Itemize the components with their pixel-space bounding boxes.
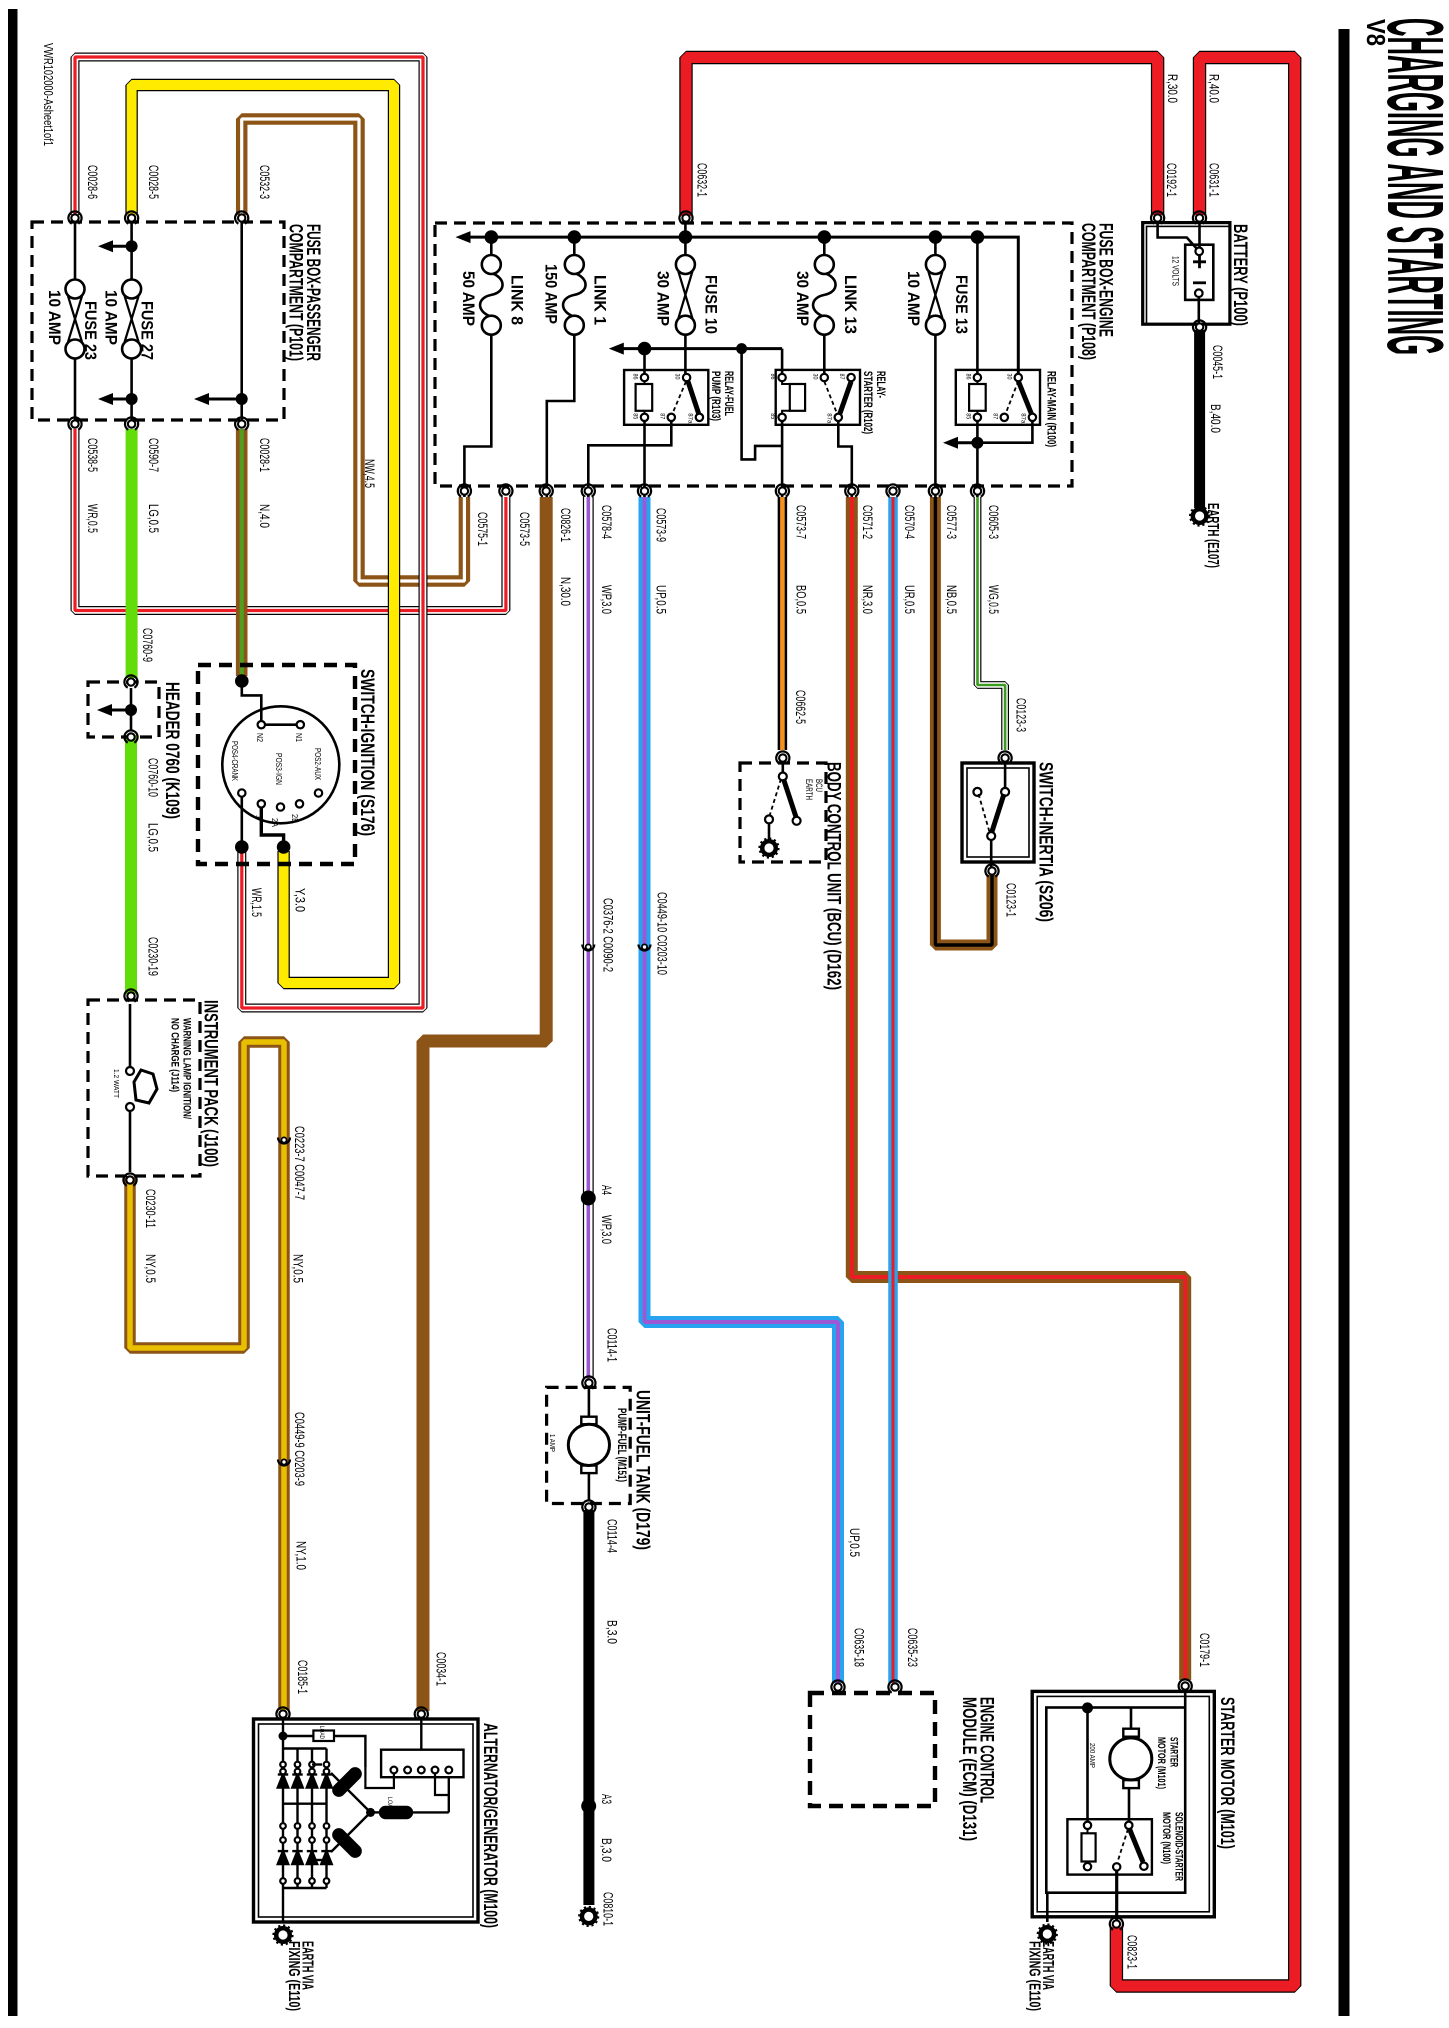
- junction A3 splice: [581, 1799, 596, 1814]
- svg-text:30: 30: [811, 374, 818, 380]
- svg-text:BODY CONTROL UNIT (BCU) (D162): BODY CONTROL UNIT (BCU) (D162): [823, 762, 844, 990]
- svg-text:NY,1.0: NY,1.0: [294, 1541, 309, 1570]
- svg-text:C0573-7: C0573-7: [793, 505, 808, 539]
- connector C0578-4: [579, 482, 597, 500]
- svg-text:10 AMP: 10 AMP: [904, 271, 922, 326]
- wire alt earth lead: [282, 1888, 284, 1922]
- wire R100 no out: [983, 422, 1032, 443]
- wire R102 blade alt: [824, 382, 837, 414]
- svg-text:87: 87: [991, 413, 998, 419]
- wire Y,3.0: [132, 85, 394, 983]
- svg-text:C0223-7 C0047-7: C0223-7 C0047-7: [292, 1126, 307, 1200]
- connector C0573-9: [635, 482, 653, 500]
- connector C0192-1: [1149, 209, 1167, 227]
- wire R103 85 out: [643, 422, 646, 498]
- svg-text:SOLENOID-STARTER: SOLENOID-STARTER: [1173, 1812, 1185, 1881]
- svg-text:C0376-2 C0090-2: C0376-2 C0090-2: [601, 898, 616, 972]
- wire N,4.0: [236, 429, 248, 676]
- svg-text:30 AMP: 30 AMP: [653, 271, 671, 326]
- wire R,40.0: [1116, 58, 1294, 1987]
- svg-text:BO,0.5: BO,0.5: [793, 585, 808, 614]
- relay R102 coil: [790, 384, 805, 411]
- relay R100 coil: [969, 384, 986, 411]
- connector C0538-5: [66, 415, 84, 433]
- svg-text:FUSE BOX-ENGINE: FUSE BOX-ENGINE: [1095, 223, 1116, 337]
- wire R103 86 line: [643, 349, 646, 374]
- connector C0571-2: [843, 482, 861, 500]
- svg-text:87: 87: [658, 413, 665, 419]
- svg-text:NY,0.5: NY,0.5: [143, 1254, 158, 1283]
- svg-text:86: 86: [964, 374, 971, 380]
- wire WG,0.5: [978, 497, 1006, 750]
- earth symbol alternator earth: [273, 1925, 292, 1944]
- connector C0028-5: [123, 209, 141, 227]
- svg-text:A4: A4: [599, 1185, 614, 1195]
- svg-text:C0571-2: C0571-2: [860, 505, 875, 539]
- svg-text:C0573-5: C0573-5: [517, 512, 532, 546]
- svg-text:FUSE BOX-PASSENGER: FUSE BOX-PASSENGER: [302, 224, 323, 361]
- svg-text:C0635-23: C0635-23: [905, 1628, 920, 1667]
- wire alt feed line: [282, 1719, 284, 1749]
- alternator regulator box: [381, 1750, 463, 1778]
- alternator stator windings: [312, 1765, 449, 1861]
- connector C0532-3: [233, 209, 251, 227]
- starter inner frame: [1046, 1708, 1185, 1893]
- connector C0605-3: [968, 482, 986, 500]
- svg-text:PUMP (R103): PUMP (R103): [709, 371, 721, 421]
- svg-text:BCU: BCU: [813, 779, 824, 792]
- wire link8 stub: [490, 237, 493, 255]
- wire UP,0.5: [645, 497, 839, 1683]
- svg-text:87: 87: [838, 374, 845, 380]
- connector C0230-19: [122, 987, 140, 1005]
- switch-ignition (S176): [198, 665, 355, 864]
- wire R102 coil bot stub: [782, 411, 790, 413]
- wire fuse10 stub: [684, 218, 687, 255]
- wire ignition feed to N2: [242, 681, 261, 721]
- connector C0570-4: [884, 482, 902, 500]
- connector C0028-1: [233, 415, 251, 433]
- junction stator node: [366, 1808, 375, 1817]
- wire WR,0.5: [75, 429, 506, 611]
- wire fuse 27 out: [130, 359, 133, 425]
- connector C0662-5: [774, 749, 792, 767]
- fuse FUSE 27: [122, 280, 141, 359]
- svg-text:N,4.0: N,4.0: [257, 504, 272, 528]
- svg-text:R,40.0: R,40.0: [1207, 74, 1222, 103]
- alternator/generator (M100) box: [254, 1719, 479, 1922]
- svg-text:WG,0.5: WG,0.5: [986, 585, 1001, 614]
- connector C0114-1: [580, 1374, 598, 1392]
- svg-text:C0635-18: C0635-18: [851, 1628, 866, 1667]
- alternator field resistor: [313, 1731, 334, 1742]
- svg-text:NR,3.0: NR,3.0: [860, 585, 875, 614]
- svg-text:FUSE 13: FUSE 13: [952, 275, 970, 334]
- svg-text:10 AMP: 10 AMP: [102, 290, 120, 345]
- svg-text:LG,0.5: LG,0.5: [146, 823, 161, 852]
- wire sol out: [1115, 1871, 1118, 1924]
- fuse FUSE 23: [66, 280, 85, 359]
- fuse FUSE 10: [676, 255, 695, 335]
- junction bus dot link8: [485, 230, 499, 244]
- earth symbol starter earth: [1038, 1924, 1057, 1943]
- wire R102 contact out: [838, 422, 852, 498]
- svg-text:C0575-1: C0575-1: [475, 512, 490, 546]
- junction Y dot: [277, 840, 291, 854]
- wire pin1 to Y: [261, 808, 283, 845]
- svg-text:UP,0.5: UP,0.5: [654, 585, 669, 614]
- fuse box-engine compartment (P108): [435, 223, 1072, 486]
- connector C0034-1: [412, 1705, 430, 1723]
- wire battery pos link: [1158, 222, 1198, 250]
- svg-text:12 VOLTS: 12 VOLTS: [1170, 256, 1180, 286]
- svg-text:C0632-1: C0632-1: [695, 163, 710, 197]
- svg-text:C0185-1: C0185-1: [295, 1660, 310, 1694]
- svg-text:RELAY-MAIN (R100): RELAY-MAIN (R100): [1045, 371, 1057, 447]
- off-page arrow header arrow: [97, 704, 137, 716]
- starter motor (M101) box: [1032, 1691, 1214, 1916]
- svg-text:UP,0.5: UP,0.5: [847, 1528, 862, 1557]
- svg-text:C0532-3: C0532-3: [257, 165, 272, 199]
- connector C0573-7: [773, 482, 791, 500]
- inline connector C0376-2 C0090-2: [582, 944, 594, 950]
- inline connector C0449-10 C0203-10: [639, 944, 651, 950]
- fuse box-passenger compartment (P101): [32, 222, 284, 420]
- wire POS4 to WR: [241, 797, 244, 845]
- wire sol coil top: [1087, 1830, 1089, 1834]
- svg-text:FUSE 23: FUSE 23: [81, 301, 99, 360]
- wire BO,0.5: [778, 497, 788, 750]
- svg-text:LG,0.5: LG,0.5: [146, 504, 161, 533]
- wire motor out: [1128, 1788, 1131, 1821]
- wire link1 stub: [573, 237, 576, 255]
- wire R102 86 line: [781, 349, 784, 374]
- svg-text:C0179-1: C0179-1: [1197, 1633, 1212, 1667]
- svg-text:C0114-1: C0114-1: [604, 1328, 619, 1362]
- wire R100 blade alt: [1006, 381, 1019, 414]
- svg-text:C0230-19: C0230-19: [146, 937, 161, 976]
- connector C0631-1: [1190, 209, 1208, 227]
- off-page arrow p101 spare c: [194, 393, 248, 405]
- svg-text:C0028-1: C0028-1: [257, 438, 272, 472]
- svg-text:C0810-1: C0810-1: [600, 1892, 615, 1926]
- connector C0575-1: [455, 482, 473, 500]
- svg-text:INSTRUMENT PACK (J100): INSTRUMENT PACK (J100): [199, 1000, 220, 1167]
- connector C0760-10: [122, 728, 140, 746]
- solenoid coil: [1082, 1833, 1096, 1861]
- wire solenoid coil feed: [1086, 1708, 1089, 1821]
- svg-text:C0662-5: C0662-5: [793, 690, 808, 724]
- battery (P100) box: [1143, 223, 1230, 325]
- wire fuse13 out: [934, 335, 937, 497]
- svg-text:ENGINE CONTROL: ENGINE CONTROL: [976, 1697, 997, 1803]
- body control unit (BCU) (D162): [740, 763, 826, 862]
- wire fuse 23 feed: [74, 218, 77, 280]
- svg-text:C0570-4: C0570-4: [902, 505, 917, 539]
- connector C0632-1: [677, 209, 695, 227]
- junction bus dot fuse13: [929, 230, 943, 244]
- instrument pack (J100): [88, 1000, 200, 1176]
- relay R103 coil: [636, 384, 653, 411]
- svg-text:1 AMP: 1 AMP: [548, 1434, 557, 1452]
- wire battery neg link: [1198, 222, 1201, 247]
- wire R100 coil top stub: [976, 382, 978, 384]
- wire link1 out: [547, 335, 575, 497]
- svg-text:C0192-1: C0192-1: [1164, 163, 1179, 197]
- junction A4 splice: [581, 1191, 596, 1206]
- junction ignition feed dot: [235, 674, 249, 688]
- svg-text:C0760-10: C0760-10: [146, 758, 161, 797]
- wire B,40.0: [1194, 330, 1205, 508]
- wire alt res lead a: [283, 1735, 313, 1737]
- engine control module (ECM) (D131): [810, 1693, 935, 1806]
- svg-text:LINK 13: LINK 13: [841, 275, 859, 334]
- wire NR,3.0: [852, 497, 1185, 1680]
- wire R103 coil bottom stub: [644, 411, 646, 413]
- battery cell box: [1185, 245, 1213, 300]
- wire link8 out: [464, 335, 491, 497]
- svg-text:EARTH (E107): EARTH (E107): [1204, 503, 1221, 568]
- svg-text:VWR102000-Asheet1of1: VWR102000-Asheet1of1: [41, 43, 55, 146]
- svg-text:10 AMP: 10 AMP: [45, 290, 63, 345]
- warning lamp bulb: [134, 1070, 157, 1103]
- inline connector C0223-7 C0047-7: [278, 1137, 290, 1143]
- svg-text:C0230-11: C0230-11: [143, 1189, 158, 1228]
- junction bus dot relaymain86: [971, 230, 985, 244]
- wire R103 coil top stub: [644, 382, 646, 384]
- wire C0179-1 entry: [1184, 1691, 1187, 1708]
- left margin bar: [8, 9, 18, 2016]
- wire lamp out: [129, 1111, 132, 1172]
- svg-text:STARTER: STARTER: [1168, 1737, 1180, 1767]
- svg-text:C0823-1: C0823-1: [1125, 1935, 1140, 1969]
- earth symbol BCU earth sym: [759, 838, 778, 857]
- wire inertia blade alt: [979, 794, 990, 832]
- wire reg pin1 lead: [365, 1767, 394, 1788]
- wire BCU switch feed: [781, 762, 784, 773]
- svg-text:RELAY-: RELAY-: [874, 371, 886, 398]
- wire lamp feed: [129, 1004, 132, 1067]
- wire BCU earth line: [768, 823, 771, 841]
- svg-text:POS4-CRANK: POS4-CRANK: [230, 741, 240, 781]
- svg-text:C0538-5: C0538-5: [85, 438, 100, 472]
- svg-text:N2: N2: [255, 733, 264, 742]
- wire BCU blade alt: [770, 779, 782, 816]
- svg-text:A3: A3: [599, 1794, 614, 1804]
- svg-text:C0826-1: C0826-1: [558, 508, 573, 542]
- svg-text:C0028-6: C0028-6: [85, 165, 100, 199]
- off-page arrow p101 spare a: [98, 240, 138, 252]
- connector C0045-1: [1191, 318, 1209, 336]
- wire relaymain 86 line: [976, 237, 979, 373]
- wire P108 bus: [469, 237, 1018, 373]
- svg-text:BATTERY (P100): BATTERY (P100): [1229, 224, 1251, 326]
- svg-text:NW,4.5: NW,4.5: [362, 459, 377, 488]
- svg-text:C0449-9 C0203-9: C0449-9 C0203-9: [292, 1412, 307, 1486]
- wire NW,4.5: [242, 119, 465, 581]
- connector C0590-7: [123, 415, 141, 433]
- svg-text:2B: 2B: [290, 814, 299, 823]
- wire WR,1.5 loop: [75, 57, 423, 1008]
- svg-text:C0605-3: C0605-3: [986, 505, 1001, 539]
- svg-text:POS2-AUX: POS2-AUX: [313, 748, 323, 780]
- svg-text:WP,3.0: WP,3.0: [599, 1215, 614, 1244]
- svg-text:C0114-4: C0114-4: [604, 1519, 619, 1553]
- svg-text:PUMP-FUEL (M151): PUMP-FUEL (M151): [615, 1408, 627, 1482]
- wire NY: [130, 1042, 284, 1710]
- wire reg feed: [420, 1719, 422, 1750]
- wire R103 87 out: [588, 422, 671, 498]
- fusible link LINK 13: [813, 255, 836, 335]
- junction R103 bus dot: [638, 342, 652, 356]
- svg-text:NO CHARGE (J114): NO CHARGE (J114): [169, 1018, 181, 1092]
- fuel pump motor: [568, 1417, 609, 1473]
- svg-text:R,30.0: R,30.0: [1165, 74, 1180, 103]
- wire R103 blade alt: [673, 382, 687, 414]
- title separator bar: [1339, 29, 1350, 2016]
- battery minus sign: [1193, 281, 1206, 284]
- connector C0185-1: [274, 1705, 292, 1723]
- svg-text:2A: 2A: [270, 818, 279, 828]
- earth symbol earth C0810-1: [579, 1907, 598, 1926]
- header 0760 (K109): [88, 682, 159, 737]
- wire header internal: [130, 688, 133, 731]
- off-page arrow bus offpage arrow: [456, 231, 471, 243]
- svg-text:SWITCH-IGNITION (S176): SWITCH-IGNITION (S176): [356, 669, 377, 836]
- inline connector C0449-9 C0203-9: [278, 1459, 290, 1465]
- svg-text:Y,3.0: Y,3.0: [293, 888, 308, 912]
- svg-text:30: 30: [674, 374, 681, 380]
- wire WP,3.0: [583, 497, 594, 1379]
- junction bus dot link1: [568, 230, 582, 244]
- svg-text:FUSE 27: FUSE 27: [138, 301, 156, 360]
- connector C0760-9: [122, 673, 140, 691]
- off-page arrow p101 spare b: [98, 393, 138, 405]
- svg-text:EARTH VIA: EARTH VIA: [298, 1941, 315, 1990]
- fusible link LINK 8: [480, 255, 503, 335]
- svg-text:B,3.0: B,3.0: [604, 1620, 619, 1644]
- svg-text:C0577-3: C0577-3: [944, 505, 959, 539]
- svg-text:200 AMP: 200 AMP: [1088, 1743, 1097, 1768]
- wire alt res lead b: [334, 1736, 365, 1767]
- unit-fuel tank (D179): [547, 1387, 631, 1503]
- R103 86 bus: [623, 347, 782, 350]
- connector C0635-18: [829, 1678, 847, 1696]
- wire starter earth lead: [1046, 1893, 1049, 1922]
- wire fuse10 to relay: [684, 335, 687, 374]
- svg-text:UR,0.5: UR,0.5: [902, 585, 917, 614]
- svg-text:WR,0.5: WR,0.5: [85, 504, 100, 533]
- svg-text:HEADER 0760 (K109): HEADER 0760 (K109): [161, 682, 182, 819]
- svg-text:C0578-4: C0578-4: [599, 505, 614, 539]
- connector C0123-3: [996, 749, 1014, 767]
- junction bus drop dot: [736, 343, 747, 354]
- wire LG,0.5 a: [126, 429, 138, 678]
- connector C0826-1: [537, 482, 555, 500]
- svg-text:C0123-3: C0123-3: [1014, 698, 1029, 732]
- fuse FUSE 13: [926, 255, 945, 335]
- relay R102 switch blade: [840, 382, 851, 414]
- off-page arrow R100 arrow: [943, 437, 983, 449]
- svg-text:RELAY-FUEL: RELAY-FUEL: [722, 371, 734, 416]
- junction WR dot: [235, 840, 249, 854]
- svg-text:STARTER MOTOR (M101): STARTER MOTOR (M101): [1216, 1697, 1238, 1849]
- svg-text:C0449-10 C0203-10: C0449-10 C0203-10: [655, 892, 670, 975]
- svg-text:85: 85: [632, 413, 639, 419]
- svg-text:C0045-1: C0045-1: [1210, 345, 1225, 379]
- svg-text:N1: N1: [294, 733, 303, 742]
- svg-text:85: 85: [769, 413, 776, 419]
- connector C0028-6: [66, 209, 84, 227]
- wire NB,0.5: [935, 497, 992, 945]
- connector C0114-4: [580, 1498, 598, 1516]
- svg-text:C0034-1: C0034-1: [433, 1652, 448, 1686]
- svg-text:C0590-7: C0590-7: [146, 438, 161, 472]
- svg-text:STARTER (R102): STARTER (R102): [861, 371, 873, 434]
- svg-text:EARTH VIA: EARTH VIA: [1039, 1941, 1056, 1990]
- svg-text:C0028-5: C0028-5: [146, 165, 161, 199]
- solenoid switch blade: [1130, 1829, 1144, 1862]
- wire reg pin5 lead: [435, 1773, 449, 1795]
- svg-text:V8: V8: [1361, 19, 1391, 46]
- battery plus sign: [1193, 255, 1206, 268]
- svg-text:NY,0.5: NY,0.5: [290, 1254, 305, 1283]
- svg-text:LINK 1: LINK 1: [591, 275, 609, 325]
- relay R103 switch blade: [688, 382, 699, 414]
- wire sol coil bot: [1087, 1861, 1089, 1864]
- svg-text:87a: 87a: [825, 413, 832, 423]
- svg-text:N,30.0: N,30.0: [558, 577, 573, 606]
- svg-text:MOTOR (M101): MOTOR (M101): [1155, 1737, 1167, 1789]
- svg-text:C0631-1: C0631-1: [1207, 163, 1222, 197]
- starter solenoid box: [1067, 1819, 1152, 1874]
- svg-text:LOAD: LOAD: [318, 1726, 325, 1739]
- svg-text:C0573-9: C0573-9: [654, 508, 669, 542]
- svg-text:NB,0.5: NB,0.5: [944, 585, 959, 614]
- svg-text:LINK 8: LINK 8: [508, 275, 526, 325]
- relay-starter (R102) box: [776, 370, 860, 425]
- connector C0179-1: [1176, 1677, 1194, 1695]
- off-page arrow R103 arrow: [609, 343, 624, 355]
- svg-text:30: 30: [1005, 374, 1012, 380]
- svg-text:30 AMP: 30 AMP: [793, 271, 811, 326]
- wire UR,0.5: [888, 497, 898, 1683]
- earth symbol earth E107: [1190, 506, 1209, 525]
- junction bus dot link13: [818, 230, 832, 244]
- connector C0230-11: [121, 1171, 139, 1189]
- wire inertia out: [990, 840, 993, 871]
- svg-text:86: 86: [769, 374, 776, 380]
- connector C0823-1: [1107, 1915, 1125, 1933]
- wire N,30.0: [423, 497, 546, 1711]
- wire battery minus link: [1198, 297, 1201, 330]
- starter motor symbol: [1110, 1729, 1152, 1788]
- wire N2-N1 line: [261, 723, 300, 726]
- alternator diode bridge: [278, 1749, 332, 1889]
- svg-text:87a: 87a: [1019, 413, 1026, 423]
- switch-inertia (S206) box: [962, 763, 1034, 862]
- svg-text:UNIT-FUEL TANK (D179): UNIT-FUEL TANK (D179): [632, 1390, 653, 1550]
- svg-text:B,3.0: B,3.0: [599, 1838, 614, 1862]
- wire bus drop: [742, 349, 783, 460]
- svg-text:1.2 WATT: 1.2 WATT: [112, 1069, 121, 1098]
- wire link13 to relay: [823, 335, 826, 374]
- junction bus dot fuse10: [679, 230, 693, 244]
- wire R102 coil top stub: [782, 382, 790, 384]
- svg-text:CHARGING AND STARTING: CHARGING AND STARTING: [1371, 18, 1449, 355]
- svg-text:87a: 87a: [686, 413, 693, 423]
- svg-text:WARNING LAMP IGNITION/: WARNING LAMP IGNITION/: [181, 1018, 193, 1119]
